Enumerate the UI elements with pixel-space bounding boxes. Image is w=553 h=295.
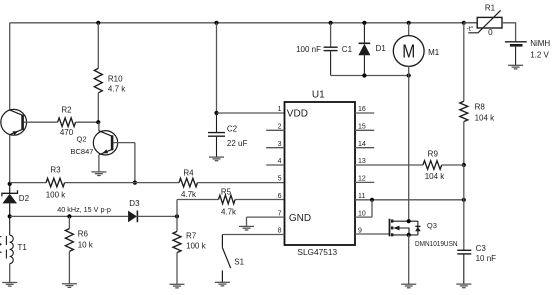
node junction pin10/11 xyxy=(370,198,374,202)
op-amp U1 body xyxy=(285,102,356,245)
wire Q1 emitter column xyxy=(9,135,11,184)
svg-text:R6: R6 xyxy=(78,230,89,239)
pin number 11 xyxy=(358,193,365,200)
wire D3 to node xyxy=(137,215,177,217)
ground S1 xyxy=(215,282,230,286)
wire node to Q2 collector xyxy=(98,122,100,131)
svg-text:13: 13 xyxy=(358,158,366,165)
value 4.7k R4 xyxy=(181,190,197,199)
ground C2 xyxy=(209,157,224,161)
node junction rail/M1 xyxy=(407,21,411,25)
label D1 xyxy=(376,44,387,53)
pin number 8 xyxy=(278,228,282,235)
value 104 k R9 xyxy=(425,172,446,181)
pin number 6 xyxy=(278,193,282,200)
label 1.2 V xyxy=(530,51,549,60)
label VDD xyxy=(287,108,308,119)
node junction D3/R5/R7 xyxy=(175,214,179,218)
value 22 uF xyxy=(227,139,248,148)
wire rail to C1 xyxy=(330,23,332,47)
svg-text:104 k: 104 k xyxy=(425,172,446,181)
wire node to R3 xyxy=(10,182,46,184)
pin number 14 xyxy=(358,141,366,148)
svg-text:M: M xyxy=(402,42,415,62)
label NiMH xyxy=(530,39,550,48)
node junction D2/T1/wire xyxy=(8,214,12,218)
svg-text:M1: M1 xyxy=(428,48,440,57)
resistor R6 xyxy=(65,229,73,252)
capacitor C2 xyxy=(208,113,225,157)
diode D1 xyxy=(358,23,370,76)
svg-text:4.7 k: 4.7 k xyxy=(108,85,126,94)
svg-text:4.7k: 4.7k xyxy=(181,190,197,199)
wire pin 7 ground drop xyxy=(246,217,248,226)
value 10 k xyxy=(78,241,94,250)
pin number 13 xyxy=(358,158,366,165)
svg-text:100 k: 100 k xyxy=(186,241,207,250)
svg-text:R4: R4 xyxy=(183,168,194,177)
svg-text:VDD: VDD xyxy=(287,108,308,119)
svg-text:470: 470 xyxy=(60,128,74,137)
pin 15 stub xyxy=(355,129,374,131)
wire R2 to node xyxy=(76,121,99,123)
label 100 nF xyxy=(296,45,321,54)
label DMN1019USN xyxy=(415,241,458,248)
label R8 xyxy=(475,102,486,111)
pin 3 stub xyxy=(266,147,284,149)
wire node down to C3 xyxy=(463,165,465,250)
node junction R8/R9 xyxy=(462,163,466,167)
wire rail right segment xyxy=(464,22,477,24)
pin number 4 xyxy=(278,158,282,165)
svg-text:104 k: 104 k xyxy=(475,114,496,123)
svg-text:SLG47513: SLG47513 xyxy=(297,247,337,257)
resistor R3 xyxy=(46,178,65,187)
node junction C2/pin1 xyxy=(214,111,218,115)
label C3 xyxy=(476,244,487,253)
wire left column upper (rail to Q1 collector) xyxy=(9,23,11,110)
node junction Q2 base/R3 wire xyxy=(133,181,137,185)
inductor T1 xyxy=(0,216,13,263)
svg-text:BC847: BC847 xyxy=(71,147,94,156)
svg-text:6: 6 xyxy=(278,193,282,200)
svg-text:R7: R7 xyxy=(186,231,197,240)
wire pin 10 stub xyxy=(355,216,372,218)
resistor R8 xyxy=(460,101,468,121)
label BC847 xyxy=(71,147,94,156)
resistor R9 xyxy=(423,161,442,170)
svg-text:16: 16 xyxy=(358,106,366,113)
ground battery xyxy=(508,65,523,69)
ground Q2 emitter xyxy=(91,172,106,176)
svg-text:GND: GND xyxy=(289,213,311,224)
wire rail to R10 xyxy=(97,23,99,69)
ground R6 xyxy=(62,284,77,288)
pin number 9 xyxy=(358,228,362,235)
capacitor C1 xyxy=(324,47,338,75)
svg-text:Q2: Q2 xyxy=(77,135,87,144)
svg-text:10: 10 xyxy=(358,210,366,217)
pin 16 stub xyxy=(355,112,374,114)
svg-text:D2: D2 xyxy=(19,194,30,203)
label S1 xyxy=(234,258,244,267)
node junction R6 xyxy=(67,214,71,218)
svg-text:C2: C2 xyxy=(227,124,238,133)
svg-text:4.7k: 4.7k xyxy=(221,207,237,216)
wire R8 to R9 node xyxy=(463,122,465,165)
battery NiMH xyxy=(505,42,527,66)
svg-text:R8: R8 xyxy=(475,102,486,111)
node junction rail/C1 xyxy=(329,21,333,25)
resistor R2 xyxy=(58,118,76,127)
label R2 xyxy=(61,105,72,114)
wire pin 7 to ground xyxy=(247,216,285,218)
svg-text:D3: D3 xyxy=(129,199,140,208)
label R5 xyxy=(221,187,232,196)
label GND xyxy=(289,213,311,224)
label T1 xyxy=(18,243,28,252)
svg-text:12: 12 xyxy=(358,176,366,183)
svg-text:NiMH: NiMH xyxy=(530,39,550,48)
capacitor C3 xyxy=(457,250,471,284)
wire R5 to pin 6 xyxy=(235,199,284,201)
resistor R7 xyxy=(173,231,181,252)
ground C3 xyxy=(456,284,471,288)
label R4 xyxy=(183,168,194,177)
svg-text:11: 11 xyxy=(358,193,365,200)
resistor R10 xyxy=(94,68,102,92)
svg-text:8: 8 xyxy=(278,228,282,235)
svg-text:10 nF: 10 nF xyxy=(476,254,497,263)
node junction rail/R10 xyxy=(96,21,100,25)
wire rail to C2 node xyxy=(216,23,218,113)
svg-text:1.2 V: 1.2 V xyxy=(530,51,549,60)
pin number 12 xyxy=(358,176,366,183)
svg-text:-t°: -t° xyxy=(467,25,474,33)
wire R4 to pin 5 xyxy=(198,182,285,184)
svg-text:10 k: 10 k xyxy=(78,241,94,250)
label D2 xyxy=(19,194,30,203)
svg-text:40 kHz, 15 V p-p: 40 kHz, 15 V p-p xyxy=(57,205,111,214)
ground T1 xyxy=(2,283,17,287)
svg-text:22 uF: 22 uF xyxy=(227,139,248,148)
svg-text:S1: S1 xyxy=(234,258,244,267)
svg-text:R5: R5 xyxy=(221,187,232,196)
pin number 15 xyxy=(358,124,366,131)
pin number 7 xyxy=(278,210,282,217)
transistor Q2 xyxy=(93,131,117,155)
node junction D1 bottom xyxy=(362,73,366,77)
label R3 xyxy=(50,166,61,175)
node junction rail/R8 xyxy=(462,21,466,25)
node junction left column/R3 xyxy=(8,182,12,186)
wire R5 lead xyxy=(177,199,219,201)
svg-text:3: 3 xyxy=(278,141,282,148)
svg-text:7: 7 xyxy=(278,210,282,217)
wire R6 lead xyxy=(68,216,70,228)
transistor Q1 xyxy=(1,109,27,135)
label C2 xyxy=(227,124,238,133)
wire rail to R8 xyxy=(463,23,465,102)
value 100 k xyxy=(46,191,67,200)
svg-text:R3: R3 xyxy=(50,166,61,175)
pin 14 stub xyxy=(355,147,374,149)
wire R9 to node xyxy=(442,164,464,166)
svg-text:4: 4 xyxy=(278,158,282,165)
ground R7 xyxy=(170,284,185,288)
label R9 xyxy=(428,149,439,158)
diode D2 zener xyxy=(2,184,18,217)
label D3 xyxy=(129,199,140,208)
wire R10 to node xyxy=(97,93,99,122)
wire R3 to R4 xyxy=(65,182,179,184)
value 4.7k R5 xyxy=(221,207,237,216)
ground pin 7 xyxy=(239,226,254,230)
svg-text:D1: D1 xyxy=(376,44,387,53)
node junction rail/D1 xyxy=(362,21,366,25)
wire R1 to battery xyxy=(502,23,516,41)
pin 4 stub xyxy=(266,164,284,166)
value 104 k R8 xyxy=(475,114,496,123)
wire pin 8 to S1 xyxy=(222,234,284,236)
label -t deg xyxy=(467,25,474,33)
wire C1 bottom rail xyxy=(331,75,409,77)
svg-text:T1: T1 xyxy=(18,243,28,252)
node junction R2/R10/Q2 xyxy=(96,120,100,124)
svg-text:2: 2 xyxy=(278,124,282,131)
resistor R1 thermistor xyxy=(468,10,502,33)
svg-text:R10: R10 xyxy=(108,74,123,83)
svg-text:100 nF: 100 nF xyxy=(296,45,321,54)
node junction Q3 source xyxy=(407,233,411,237)
svg-text:14: 14 xyxy=(358,141,366,148)
node junction rail/C2 xyxy=(214,21,218,25)
pin number 2 xyxy=(278,124,282,131)
svg-text:100 k: 100 k xyxy=(46,191,67,200)
wire Q1 base to R2 xyxy=(24,121,58,123)
node junction wire/C3 column xyxy=(462,198,466,202)
value 100 k R7 xyxy=(186,241,207,250)
label 40 kHz 15 V p-p xyxy=(57,205,111,214)
svg-text:0: 0 xyxy=(488,28,493,37)
svg-text:R2: R2 xyxy=(61,105,72,114)
node junction Q3 drain xyxy=(407,219,411,223)
resistor R4 xyxy=(179,178,198,187)
pin number 16 xyxy=(358,106,366,113)
label SLG47513 xyxy=(297,247,337,257)
svg-text:C3: C3 xyxy=(476,244,487,253)
label Q2 xyxy=(77,135,87,144)
pin 2 stub xyxy=(266,129,284,131)
switch S1 xyxy=(222,235,230,283)
wire top supply rail xyxy=(10,22,478,24)
svg-text:U1: U1 xyxy=(312,89,325,100)
label R10 xyxy=(108,74,123,83)
label R6 xyxy=(78,230,89,239)
pin number 3 xyxy=(278,141,282,148)
label R1 xyxy=(485,4,496,13)
wire Q3 source to ground xyxy=(408,235,410,284)
label Q3 xyxy=(427,221,437,230)
svg-text:C1: C1 xyxy=(342,45,353,54)
diode D3 xyxy=(128,211,137,223)
pin 12 stub xyxy=(355,181,374,183)
value 4.7 k xyxy=(108,85,126,94)
svg-text:1: 1 xyxy=(278,106,282,113)
svg-text:R1: R1 xyxy=(485,4,496,13)
value 10 nF xyxy=(476,254,497,263)
svg-text:15: 15 xyxy=(358,124,366,131)
ground Q3 xyxy=(401,284,416,288)
svg-text:R9: R9 xyxy=(428,149,439,158)
value 0 xyxy=(488,28,493,37)
wire node up to R5 xyxy=(176,200,178,217)
wire Q2 base down to R3 wire xyxy=(134,143,136,183)
motor M1 xyxy=(393,23,424,76)
wire pin 13 to R9 xyxy=(355,164,423,166)
resistor R5 xyxy=(219,195,236,204)
label R7 xyxy=(186,231,197,240)
label U1 xyxy=(312,89,325,100)
wire lower horizontal (node to D3) xyxy=(10,215,128,217)
wire Q2 emitter to ground xyxy=(98,155,100,172)
transistor Q3 xyxy=(390,219,421,237)
wire R6 to ground xyxy=(68,251,70,283)
label M1 xyxy=(428,48,440,57)
svg-text:DMN1019USN: DMN1019USN xyxy=(415,241,458,248)
wire Q2 base lead xyxy=(113,142,134,144)
value 470 xyxy=(60,128,74,137)
wire R7 to ground xyxy=(176,253,178,285)
wire pin 11 to C3 column xyxy=(355,199,464,201)
pin number 5 xyxy=(278,176,282,183)
wire motor column down to Q3 drain xyxy=(408,76,410,222)
node junction motor bottom xyxy=(407,73,411,77)
wire R7 lead xyxy=(176,216,178,231)
wire pin 9 to Q3 gate xyxy=(355,233,390,235)
label C1 xyxy=(342,45,353,54)
wire pin 10 up to pin 11 xyxy=(371,200,373,217)
svg-text:5: 5 xyxy=(278,176,282,183)
wire C2 node to pin 1 xyxy=(217,112,285,114)
pin number 10 xyxy=(358,210,366,217)
wire T1 to ground xyxy=(9,264,11,283)
pin number 1 xyxy=(278,106,282,113)
svg-text:Q3: Q3 xyxy=(427,221,437,230)
